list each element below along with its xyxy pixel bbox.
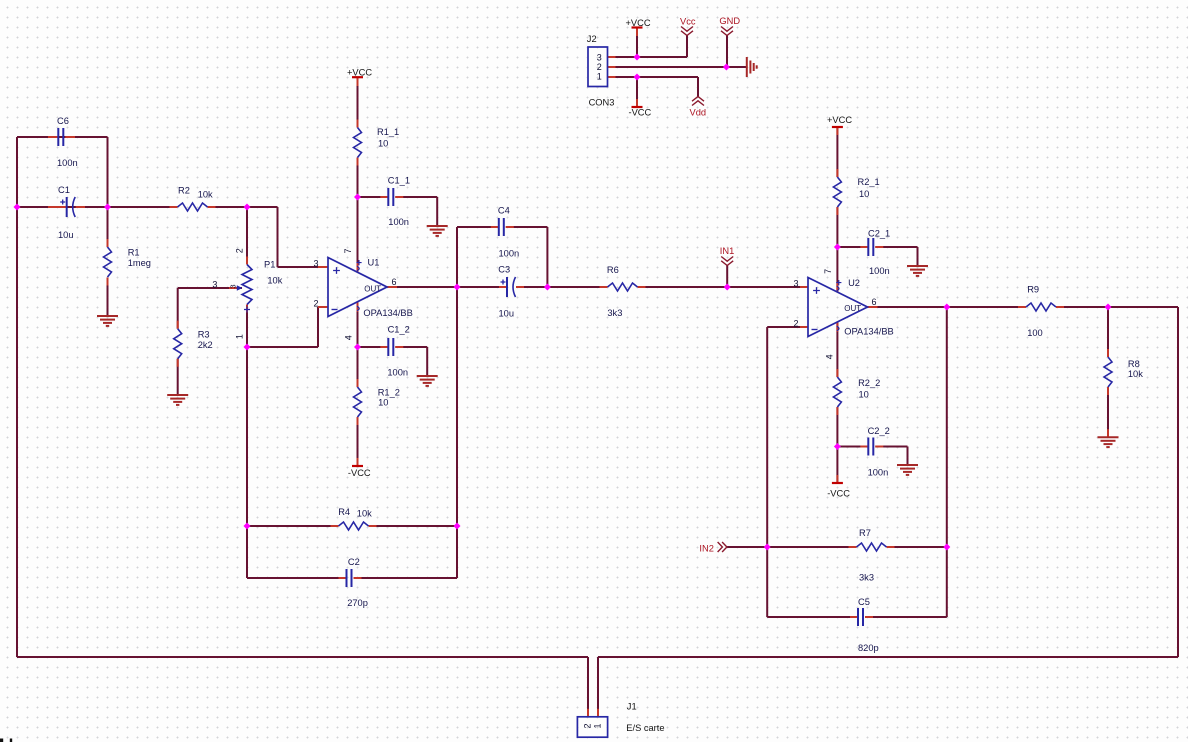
svg-text:1: 1	[593, 723, 603, 728]
svg-text:C2_2: C2_2	[868, 426, 890, 436]
node U1 out	[454, 284, 461, 291]
connector J1 E/S carte	[577, 702, 664, 738]
wire C2 feedback rail	[247, 577, 457, 579]
wire C3 span	[457, 286, 547, 288]
svg-text:2: 2	[597, 62, 602, 72]
resistor R6	[607, 265, 638, 318]
svg-text:OUT: OUT	[844, 304, 861, 313]
power +VCC for U2	[827, 115, 852, 127]
svg-text:R2_2: R2_2	[858, 378, 880, 388]
wire feedback right vertical	[946, 307, 948, 617]
wire riser to U1 pin3	[278, 207, 329, 267]
svg-text:R4: R4	[338, 507, 350, 517]
svg-text:J1: J1	[627, 702, 637, 712]
wire output to R9	[947, 306, 1026, 308]
node C2_1 tap	[834, 244, 841, 251]
wire C4 top rail	[457, 226, 547, 228]
capacitor C1_1	[388, 176, 410, 228]
svg-text:2: 2	[313, 299, 318, 309]
corner title-block fragment	[0, 739, 12, 742]
potentiometer P1	[212, 248, 282, 339]
svg-text:10: 10	[378, 139, 388, 149]
ground for C1_1	[427, 226, 448, 236]
svg-text:+VCC: +VCC	[626, 18, 651, 28]
svg-text:6: 6	[871, 297, 876, 307]
capacitor C5	[858, 597, 879, 653]
svg-text:10k: 10k	[267, 276, 282, 286]
port IN1	[720, 246, 734, 266]
capacitor C4	[498, 206, 519, 259]
wire node to P1 pin2	[246, 207, 248, 265]
svg-text:E/S carte: E/S carte	[626, 723, 664, 733]
svg-text:100: 100	[1027, 328, 1043, 338]
svg-text:10u: 10u	[58, 230, 74, 240]
svg-text:U1: U1	[368, 258, 380, 268]
wire R9 to R8 node to right edge	[1056, 306, 1178, 308]
node IN2	[764, 544, 771, 551]
wire R1_2 to -VCC	[357, 417, 359, 466]
svg-text:10k: 10k	[198, 190, 213, 200]
svg-text:3: 3	[212, 280, 217, 290]
svg-text:3k3: 3k3	[607, 308, 622, 318]
svg-text:100n: 100n	[388, 217, 409, 227]
wire U2 pin2 left-down to IN2 line	[767, 327, 808, 617]
wire C4-C3 left vertical	[456, 227, 458, 578]
svg-text:Vdd: Vdd	[690, 108, 707, 118]
node C4 right	[544, 284, 551, 291]
svg-text:OUT: OUT	[364, 285, 381, 294]
wire node to R6 to IN1 to U2 pin3	[547, 286, 808, 288]
resistor R7	[857, 528, 887, 583]
wire C2_1 branch	[837, 247, 917, 266]
resistor R9	[1026, 285, 1056, 339]
capacitor C2_2	[868, 426, 890, 478]
wire C1_1 branch	[358, 197, 438, 226]
wire +VCC to R2_1 to U2 pin7	[836, 127, 838, 292]
power +VCC for U1	[347, 68, 372, 78]
svg-text:100n: 100n	[499, 249, 520, 259]
wire +VCC to R1_1 to U1 pin7	[357, 77, 359, 272]
svg-text:3: 3	[313, 259, 318, 269]
wire C5 feedback rail	[767, 616, 947, 618]
node C1_1 tap	[354, 194, 361, 201]
power -VCC for U1	[348, 466, 371, 478]
wire C2_2 branch	[837, 447, 907, 466]
ground for R3	[167, 395, 188, 405]
wire C4 right vertical	[546, 227, 548, 287]
svg-text:R1_2: R1_2	[378, 388, 400, 398]
capacitor C3 polarized	[498, 265, 515, 319]
node J2 pin1	[634, 74, 641, 81]
wire bottom bus right	[598, 657, 1178, 717]
svg-text:2: 2	[235, 248, 245, 253]
power +VCC at J2	[626, 18, 651, 28]
resistor R1_2	[354, 387, 400, 417]
node R9 right	[1105, 304, 1112, 311]
wire inverting node to U1 pin2	[247, 307, 328, 347]
svg-text:270p: 270p	[347, 598, 368, 608]
wire C1_2 branch	[358, 347, 428, 376]
port GND	[719, 16, 740, 36]
resistor R1	[104, 247, 151, 277]
svg-text:10k: 10k	[357, 509, 372, 519]
svg-text:CON3: CON3	[589, 98, 615, 108]
svg-text:R7: R7	[859, 528, 871, 538]
op-amp U1 OPA134/BB	[313, 248, 412, 340]
svg-text:1meg: 1meg	[128, 258, 151, 268]
svg-text:10k: 10k	[1128, 369, 1143, 379]
svg-text:-VCC: -VCC	[348, 468, 371, 478]
wire C6 right vertical	[107, 137, 109, 207]
svg-text:R3: R3	[198, 330, 210, 340]
svg-text:C4: C4	[498, 206, 510, 216]
power -VCC for U2	[827, 483, 850, 498]
resistor R2_2	[833, 377, 880, 407]
svg-text:OPA134/BB: OPA134/BB	[363, 308, 412, 318]
svg-text:4: 4	[344, 335, 354, 340]
resistor R3	[174, 329, 213, 359]
svg-text:C1: C1	[58, 185, 70, 195]
wire C6 top rail	[17, 136, 108, 138]
svg-text:C1_1: C1_1	[388, 176, 410, 186]
svg-text:-VCC: -VCC	[827, 488, 850, 498]
connector J2 CON3	[587, 34, 615, 108]
resistor R2_1	[833, 177, 879, 207]
svg-text:R2_1: R2_1	[858, 177, 880, 187]
resistor R1_1	[354, 127, 400, 158]
wire J2 pin2 net to earth	[608, 35, 747, 67]
ground for R1	[97, 316, 118, 326]
svg-text:4: 4	[824, 354, 834, 359]
port Vcc	[680, 17, 696, 36]
svg-text:10: 10	[859, 189, 869, 199]
svg-text:820p: 820p	[858, 643, 879, 653]
node R4 right	[454, 523, 461, 530]
wire left input bus vertical	[16, 137, 18, 657]
svg-text:7: 7	[343, 248, 353, 253]
svg-text:2k2: 2k2	[198, 340, 213, 350]
wire J2 pin1 net	[608, 77, 699, 107]
svg-text:2: 2	[583, 723, 593, 728]
wire R8 to ground	[1107, 307, 1109, 437]
svg-text:100n: 100n	[57, 158, 78, 168]
port IN2	[699, 542, 727, 554]
svg-text:U2: U2	[848, 278, 860, 288]
svg-text:C6: C6	[57, 116, 69, 126]
resistor R2	[178, 186, 214, 212]
capacitor C1_2	[387, 325, 409, 378]
svg-text:1: 1	[235, 334, 245, 339]
node inverting input	[244, 344, 251, 351]
svg-text:3k3: 3k3	[859, 573, 874, 583]
svg-text:IN2: IN2	[699, 544, 713, 554]
node J2 pin3	[634, 54, 641, 61]
wire U1 output to node	[387, 286, 457, 288]
capacitor C2	[347, 557, 368, 608]
capacitor C1 polarized	[58, 185, 75, 240]
wire J2 pin3 net	[608, 28, 688, 58]
wire R3 wiper branch	[178, 288, 242, 395]
svg-text:C5: C5	[858, 597, 870, 607]
power -VCC at J2	[629, 107, 652, 117]
svg-text:3: 3	[229, 284, 238, 288]
svg-text:C3: C3	[498, 265, 510, 275]
wire U1 pin4 down	[357, 302, 359, 387]
svg-text:3: 3	[793, 279, 798, 289]
node U2 out	[943, 304, 950, 311]
node J2 pin2	[723, 64, 730, 71]
node R4 left	[244, 523, 251, 530]
svg-text:R6: R6	[607, 265, 619, 275]
wire bottom bus left	[17, 657, 588, 717]
resistor R8	[1104, 357, 1143, 387]
node C2_2 tap	[834, 443, 841, 450]
wire IN2 line to R7	[727, 546, 947, 548]
ground for C2_2	[897, 465, 918, 475]
wire P1 pin1 to inverting node	[246, 305, 248, 348]
wire main input line C1 to R2 to node	[17, 206, 278, 208]
wire R4 feedback	[247, 525, 457, 527]
svg-text:J2: J2	[587, 34, 597, 44]
svg-text:R8: R8	[1128, 359, 1140, 369]
svg-text:10: 10	[859, 390, 869, 400]
svg-text:10: 10	[378, 397, 388, 407]
wire U2 output to node	[868, 306, 947, 308]
wire U2 pin4 down	[836, 322, 838, 377]
svg-text:2: 2	[793, 319, 798, 329]
svg-text:R9: R9	[1027, 285, 1039, 295]
node IN1	[724, 284, 731, 291]
svg-text:3: 3	[597, 52, 602, 62]
node input left	[14, 204, 21, 211]
ground for R8	[1098, 437, 1119, 447]
wire IN1 port drop	[726, 265, 728, 287]
svg-text:R1_1: R1_1	[377, 127, 399, 137]
svg-text:C1_2: C1_2	[388, 325, 410, 335]
svg-text:Vcc: Vcc	[680, 17, 696, 27]
node U1 V- tap	[354, 344, 361, 351]
svg-text:C2_1: C2_1	[868, 229, 890, 239]
svg-text:GND: GND	[719, 16, 740, 26]
svg-text:+VCC: +VCC	[827, 115, 852, 125]
svg-text:IN1: IN1	[720, 246, 734, 256]
wire R1 to ground	[107, 207, 109, 316]
svg-text:C2: C2	[348, 557, 360, 567]
ground for C1_2	[417, 376, 438, 386]
wire feedback left vertical	[246, 347, 248, 578]
node R2 right	[244, 204, 251, 211]
svg-text:R2: R2	[178, 186, 190, 196]
svg-text:6: 6	[391, 277, 396, 287]
svg-text:R1: R1	[128, 248, 140, 258]
svg-text:100n: 100n	[387, 368, 408, 378]
svg-text:7: 7	[823, 269, 833, 274]
svg-text:P1: P1	[264, 260, 275, 270]
wire R2_2 to C2_2 node to -VCC	[836, 407, 838, 483]
op-amp U2 OPA134/BB	[793, 269, 893, 359]
earth ground at J2	[747, 57, 757, 77]
svg-text:+VCC: +VCC	[347, 68, 372, 78]
capacitor C6	[57, 116, 78, 168]
node C1 right	[104, 204, 111, 211]
svg-text:OPA134/BB: OPA134/BB	[844, 327, 893, 337]
svg-text:10u: 10u	[499, 309, 515, 319]
svg-text:100n: 100n	[868, 468, 889, 478]
ground for C2_1	[907, 266, 928, 276]
svg-text:-VCC: -VCC	[629, 107, 652, 117]
capacitor C2_1	[868, 229, 890, 277]
node R7 right	[943, 544, 950, 551]
port Vdd	[690, 97, 707, 118]
wire right edge vertical	[1177, 307, 1179, 657]
svg-text:1: 1	[597, 72, 602, 82]
resistor R4	[338, 507, 372, 530]
svg-text:100n: 100n	[869, 266, 890, 276]
